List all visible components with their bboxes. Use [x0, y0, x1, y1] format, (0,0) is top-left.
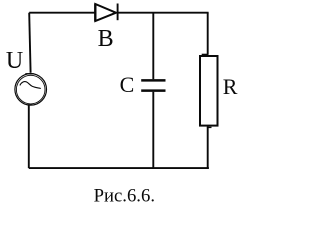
connector tick source bottom [28, 104, 33, 106]
wire resistor branch lower [207, 127, 209, 169]
svg-text:Рис.6.6.: Рис.6.6. [94, 185, 155, 206]
svg-text:U: U [6, 48, 23, 74]
AC source U inner circle [16, 75, 45, 104]
svg-text:R: R [223, 74, 238, 99]
AC source U outer circle [15, 74, 47, 106]
capacitor C top plate [141, 79, 165, 82]
diode B cathode bar [117, 4, 119, 21]
wire top-left horizontal [29, 12, 95, 14]
svg-text:B: B [98, 26, 114, 52]
resistor R body [200, 56, 218, 126]
wire capacitor branch lower [152, 92, 154, 168]
capacitor C bottom plate [141, 89, 165, 92]
wire resistor branch upper [207, 13, 209, 55]
connector tick resistor top [202, 53, 209, 55]
wire bottom horizontal [29, 167, 209, 169]
wire left lower vertical [28, 105, 30, 168]
wire capacitor branch upper [152, 13, 154, 80]
connector tick resistor bottom [207, 126, 212, 128]
AC source sine wave [20, 82, 41, 89]
diode B anode bar emphasis [94, 4, 96, 21]
wire top-right horizontal [118, 12, 209, 14]
connector tick source top [25, 73, 33, 75]
wire left upper vertical [29, 13, 30, 73]
svg-text:C: C [120, 72, 135, 97]
diode B triangle [95, 4, 116, 21]
